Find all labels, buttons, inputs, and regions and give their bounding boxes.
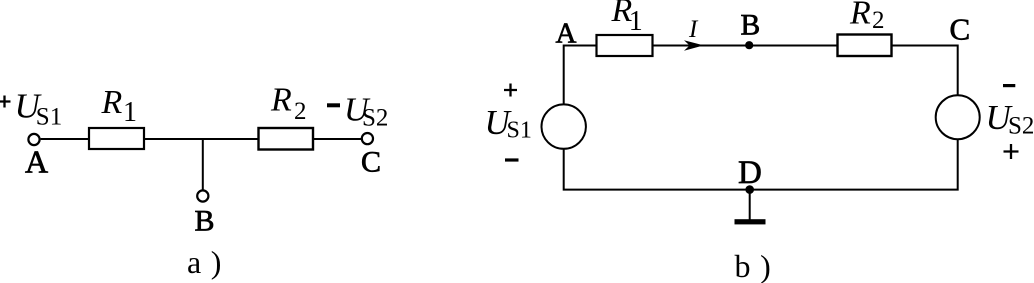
svg-text:B: B — [741, 10, 761, 42]
svg-text:S1: S1 — [36, 104, 62, 131]
svg-text:R: R — [101, 84, 123, 121]
terminal B circle — [197, 190, 208, 201]
ground stem at node D — [749, 190, 751, 220]
voltage source U_S2 circle — [936, 95, 980, 139]
node B dot — [745, 41, 753, 49]
svg-text:S2: S2 — [362, 104, 388, 131]
top wire R1 to R2 with current direction — [653, 45, 838, 47]
node D dot — [745, 185, 754, 194]
wire R1 to R2 — [144, 138, 259, 140]
ground bar — [735, 219, 766, 224]
svg-text:I: I — [688, 16, 699, 43]
svg-text:2: 2 — [872, 7, 885, 34]
plus sign of U_S1 (fig b) — [504, 84, 517, 97]
minus sign of U_S2 (fig a) — [327, 103, 340, 107]
svg-text:C: C — [361, 145, 381, 178]
svg-text:a ): a ) — [187, 244, 222, 280]
terminal C circle — [362, 133, 373, 144]
minus sign of U_S2 (fig b) — [1003, 84, 1015, 87]
svg-text:1: 1 — [123, 97, 137, 128]
svg-text:R: R — [849, 0, 871, 31]
svg-text:B: B — [195, 205, 215, 238]
svg-text:R: R — [270, 82, 292, 119]
wire C corner to source — [892, 46, 958, 96]
voltage source U_S1 circle — [542, 104, 586, 148]
resistor R2 (fig a) — [259, 128, 314, 150]
resistor R1 (fig b) — [597, 35, 653, 56]
wire R2 to C — [313, 138, 361, 140]
svg-text:A: A — [556, 17, 577, 49]
plus sign of U_S2 (fig b) — [1004, 144, 1019, 159]
terminal A circle — [28, 134, 39, 145]
bottom wire D to right corner — [750, 139, 958, 189]
wire A corner to R1 — [564, 46, 597, 105]
svg-text:D: D — [738, 155, 762, 191]
resistor R2 (fig b) — [838, 35, 892, 57]
svg-text:S1: S1 — [507, 117, 532, 143]
resistor R1 (fig a) — [89, 128, 144, 149]
svg-text:A: A — [25, 144, 48, 180]
wire A to R1 — [41, 138, 89, 140]
wire source to bottom-left corner — [564, 149, 750, 190]
plus sign of U_S1 (fig a) — [0, 96, 11, 108]
current arrowhead I — [684, 40, 704, 50]
minus sign of U_S1 (fig b) — [505, 158, 519, 161]
node junction to B wire — [202, 139, 204, 190]
svg-text:1: 1 — [629, 6, 643, 37]
svg-text:C: C — [950, 11, 971, 46]
svg-text:b ): b ) — [735, 248, 772, 283]
svg-text:S2: S2 — [1008, 113, 1034, 140]
svg-text:2: 2 — [294, 98, 307, 125]
